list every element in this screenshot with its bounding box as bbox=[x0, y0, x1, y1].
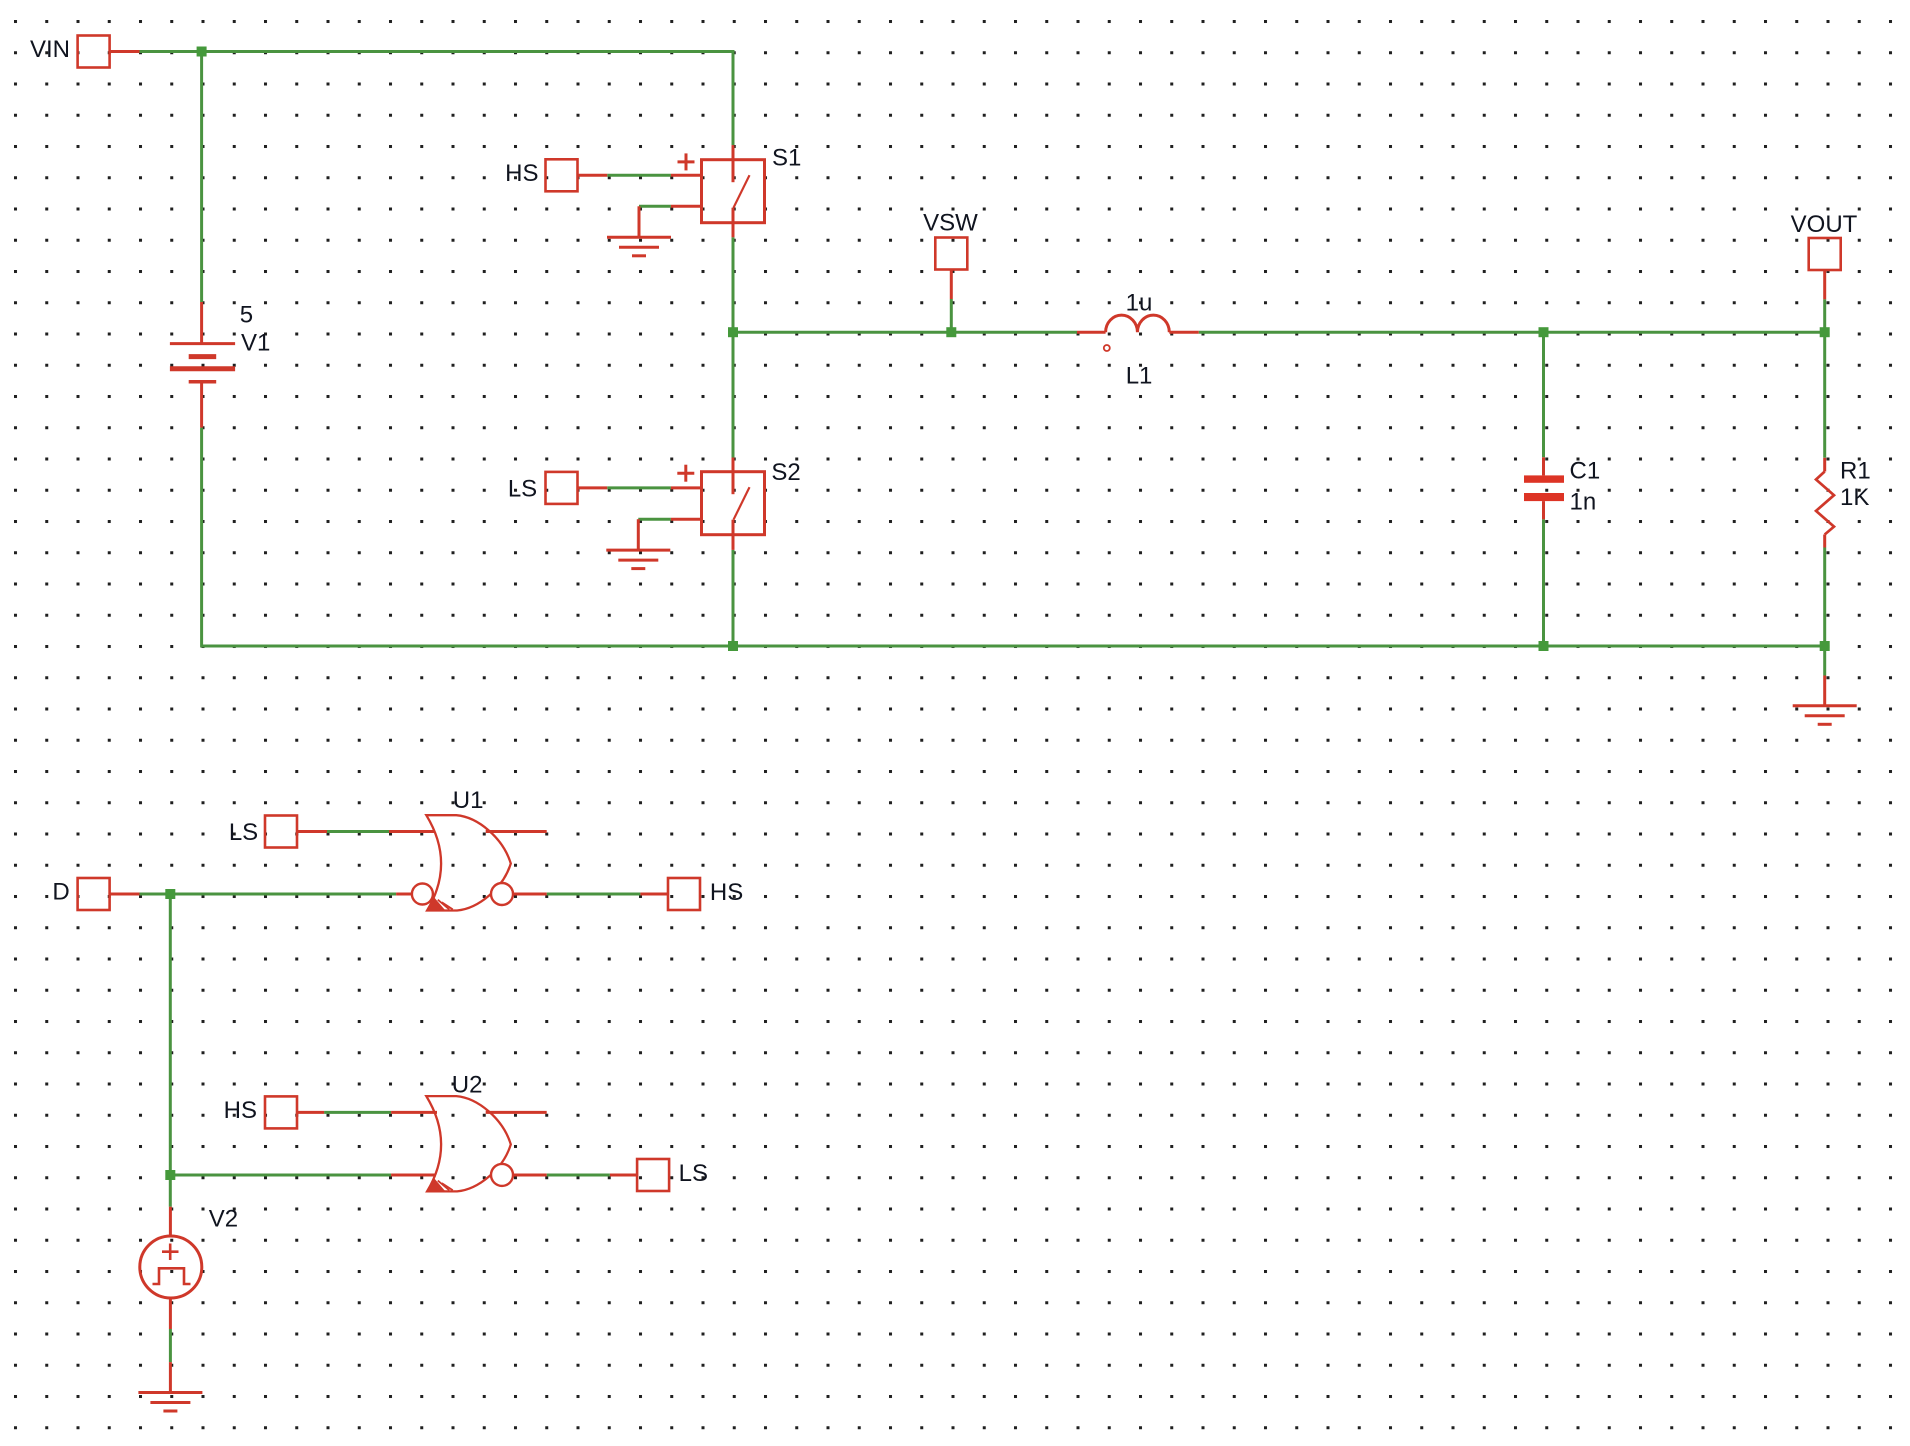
pin LS port (U1) bbox=[297, 830, 327, 833]
svg-text:HS: HS bbox=[710, 879, 743, 906]
pin U1 output bubble to wire bbox=[513, 893, 547, 896]
svg-text:U2: U2 bbox=[452, 1071, 483, 1098]
svg-text:HS: HS bbox=[505, 160, 538, 187]
svg-text:V2: V2 bbox=[209, 1206, 238, 1233]
port VSW bbox=[935, 238, 967, 270]
wire D node down to U2 input B bbox=[169, 894, 172, 1207]
svg-text:VSW: VSW bbox=[923, 210, 978, 237]
wire U2 input B horizontal bbox=[170, 1174, 391, 1177]
svg-text:HS: HS bbox=[224, 1097, 257, 1124]
svg-text:U1: U1 bbox=[453, 787, 484, 814]
wire VSW port drop bbox=[950, 299, 953, 332]
wire C1 bottom to bottom rail bbox=[1542, 519, 1545, 646]
wire S1 bottom to S2 top (VSW column) bbox=[732, 237, 735, 457]
junction VIN / V1 bbox=[197, 47, 207, 57]
wire V1 minus down to bottom rail corner bbox=[202, 428, 731, 646]
wire VIN rail to S1 column bbox=[140, 52, 734, 146]
wire S1 minus pin to ground stub bbox=[639, 205, 671, 208]
junction C1 top tap bbox=[1539, 327, 1549, 337]
junction U2 input B node bbox=[165, 1170, 175, 1180]
svg-text:1K: 1K bbox=[1840, 484, 1869, 511]
svg-text:1n: 1n bbox=[1570, 489, 1597, 516]
pulse source V2 bbox=[140, 1236, 202, 1298]
pin U2 output bubble to wire bbox=[513, 1174, 547, 1177]
junction VOUT tap bbox=[1820, 327, 1830, 337]
plus marker S1 bbox=[678, 153, 695, 170]
pin HS port (U2) bbox=[297, 1111, 324, 1114]
wire bottom rail bbox=[731, 645, 1825, 648]
pin U1 input B to bubble bbox=[396, 893, 412, 896]
wire LS port to U1 input A bbox=[327, 830, 389, 833]
svg-text:1u: 1u bbox=[1126, 290, 1153, 317]
pin VSW port bbox=[950, 270, 953, 300]
svg-text:S1: S1 bbox=[772, 145, 801, 172]
junction S2 bottom rail bbox=[728, 641, 738, 651]
resistor R1 bbox=[1816, 472, 1834, 535]
pin S2 minus input bbox=[671, 518, 702, 521]
junction C1 bottom rail bbox=[1539, 641, 1549, 651]
pin C1 top bbox=[1542, 457, 1545, 475]
pin L1 right bbox=[1169, 331, 1198, 334]
pin S2 bottom bbox=[732, 535, 735, 550]
pin S2 top bbox=[732, 458, 735, 472]
wire R1 bottom through rail node to ground bbox=[1823, 548, 1826, 676]
wire VIN junction down to V1 plus bbox=[200, 52, 203, 303]
pin S1 top bbox=[732, 145, 735, 160]
ground at S1 bbox=[607, 237, 671, 256]
junction VSW column / output rail bbox=[728, 327, 738, 337]
pin S2 ground lead bbox=[637, 519, 640, 550]
svg-text:S2: S2 bbox=[771, 459, 800, 486]
junction D node bbox=[165, 889, 175, 899]
ground at V2 bbox=[138, 1393, 202, 1412]
wire VSW node horizontal to L1 bbox=[733, 331, 1077, 334]
port LS (U1 input) bbox=[265, 816, 297, 848]
port HS (S1 control) bbox=[546, 159, 578, 191]
svg-text:L1: L1 bbox=[1126, 363, 1153, 390]
port LS (S2 control) bbox=[546, 472, 578, 504]
wire VOUT port down through node to R1 top bbox=[1823, 299, 1826, 458]
pin V2 bottom bbox=[169, 1298, 172, 1329]
pin R1 top bbox=[1823, 458, 1826, 472]
pin HS port (U1 output) bbox=[640, 893, 668, 896]
nor gate U2 bbox=[426, 1096, 513, 1191]
plus marker S2 bbox=[677, 465, 694, 482]
ground at VOUT rail bbox=[1793, 706, 1857, 725]
svg-text:D: D bbox=[52, 879, 69, 906]
wire HS port to S1 plus pin bbox=[607, 174, 671, 177]
pin U2 input A bbox=[391, 1111, 437, 1114]
pin VOUT port bbox=[1823, 270, 1826, 299]
battery V1 bbox=[170, 344, 235, 382]
pin V1 bottom bbox=[200, 382, 203, 428]
svg-text:R1: R1 bbox=[1840, 458, 1871, 485]
pin HS port (S1) bbox=[578, 174, 607, 177]
switch S1 bbox=[702, 160, 765, 223]
svg-text:5: 5 bbox=[240, 302, 253, 329]
wire L1 to VOUT node bbox=[1199, 331, 1825, 334]
pin S2 plus input bbox=[671, 486, 702, 489]
port LS (U2 output) bbox=[637, 1159, 669, 1191]
pin L1 left bbox=[1077, 331, 1106, 334]
pin V1 top bbox=[200, 302, 203, 344]
pin U1 input A bbox=[389, 830, 435, 833]
junction R1 bottom rail bbox=[1820, 641, 1830, 651]
wire S2 bottom to bottom rail bbox=[732, 550, 735, 646]
pin LS port (U2 output) bbox=[610, 1174, 637, 1177]
port D bbox=[78, 878, 110, 910]
wire V2 minus to ground bbox=[169, 1329, 172, 1362]
pin R1 bottom bbox=[1823, 535, 1826, 548]
wire HS port to U2 input A bbox=[324, 1111, 391, 1114]
pin S1 bottom bbox=[732, 223, 735, 238]
pin V2 top bbox=[169, 1207, 172, 1237]
wire U1 output to HS port bbox=[547, 893, 641, 896]
nor gate U1 bbox=[412, 815, 513, 910]
pin C1 bottom bbox=[1542, 501, 1545, 519]
pin S1 ground lead bbox=[638, 206, 641, 237]
svg-text:LS: LS bbox=[679, 1160, 708, 1187]
pin S1 minus input bbox=[671, 205, 702, 208]
pin LS port (S2) bbox=[578, 486, 607, 489]
wire C1 top from output node bbox=[1542, 332, 1545, 457]
capacitor C1 bbox=[1524, 475, 1564, 501]
pin U2 true output stub bbox=[486, 1111, 547, 1114]
svg-text:LS: LS bbox=[508, 476, 537, 503]
pin D port bbox=[110, 893, 140, 896]
svg-text:LS: LS bbox=[229, 819, 258, 846]
svg-text:C1: C1 bbox=[1570, 458, 1601, 485]
wire D port to U1 input B bbox=[140, 893, 397, 896]
junction VSW port tap bbox=[946, 327, 956, 337]
ground at S2 bbox=[606, 550, 670, 569]
svg-text:V1: V1 bbox=[241, 330, 270, 357]
wire LS port to S2 plus pin bbox=[607, 486, 671, 489]
inductor L1 bbox=[1104, 315, 1170, 351]
svg-text:VOUT: VOUT bbox=[1791, 211, 1858, 238]
switch S2 bbox=[702, 472, 765, 535]
port HS (U2 input) bbox=[265, 1096, 297, 1128]
port HS (U1 output) bbox=[668, 878, 700, 910]
pin ground lead at VOUT rail bbox=[1823, 676, 1826, 706]
port VOUT bbox=[1809, 238, 1841, 270]
wire U2 output to LS port bbox=[547, 1174, 610, 1177]
svg-text:VIN: VIN bbox=[30, 36, 70, 63]
pin V2 ground lead bbox=[169, 1362, 172, 1392]
wire S2 minus pin to ground stub bbox=[638, 518, 671, 521]
pin VIN port bbox=[110, 50, 140, 53]
port VIN bbox=[78, 36, 110, 68]
pin U1 true output stub bbox=[486, 830, 547, 833]
pin U2 input B bbox=[391, 1174, 436, 1177]
pin S1 plus input bbox=[671, 174, 702, 177]
